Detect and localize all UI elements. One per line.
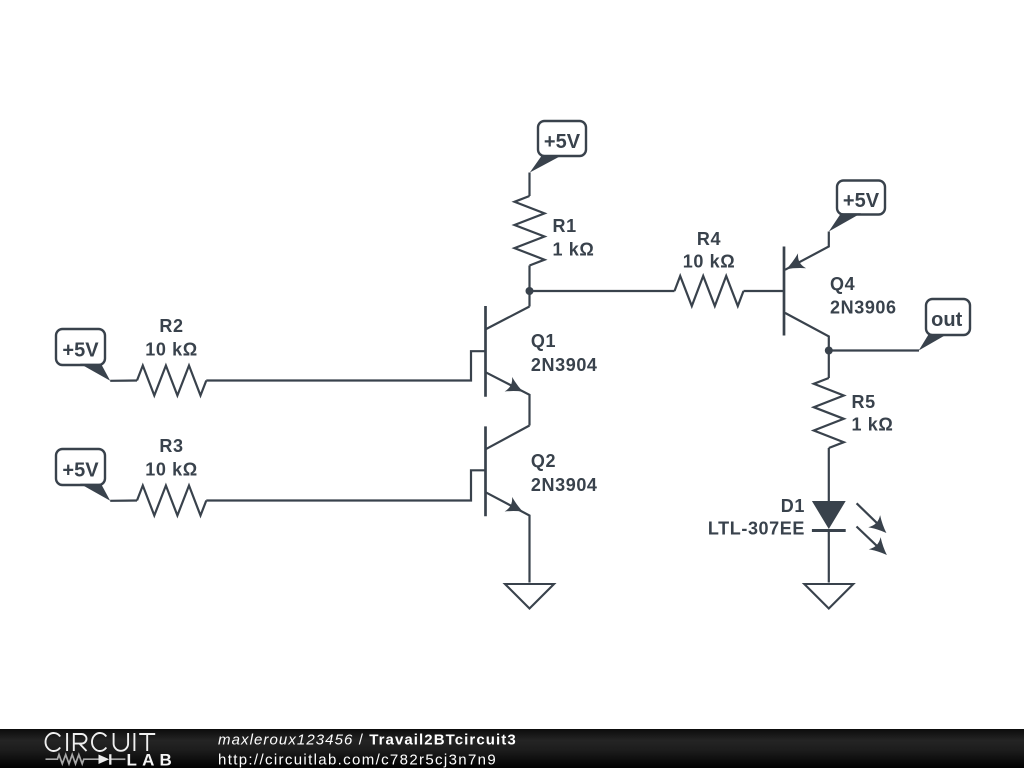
svg-text:10 kΩ: 10 kΩ [145, 340, 197, 360]
svg-text:R4: R4 [697, 229, 721, 249]
svg-text:Q4: Q4 [830, 274, 855, 294]
svg-text:out: out [931, 309, 962, 331]
svg-text:R1: R1 [553, 216, 577, 236]
svg-text:Q2: Q2 [531, 451, 556, 471]
svg-text:Q1: Q1 [531, 331, 556, 351]
svg-text:R2: R2 [159, 316, 183, 336]
svg-text:2N3904: 2N3904 [531, 355, 598, 375]
svg-text:R3: R3 [159, 436, 183, 456]
svg-text:D1: D1 [781, 496, 805, 516]
svg-text:+5V: +5V [843, 190, 880, 212]
svg-text:+5V: +5V [544, 131, 581, 153]
svg-text:http://circuitlab.com/c782r5cj: http://circuitlab.com/c782r5cj3n7n9 [218, 751, 497, 768]
svg-text:+5V: +5V [62, 460, 99, 482]
svg-text:maxleroux123456 / Travail2BTci: maxleroux123456 / Travail2BTcircuit3 [218, 732, 517, 749]
svg-text:2N3906: 2N3906 [830, 298, 897, 318]
svg-text:LAB: LAB [127, 750, 178, 768]
svg-text:2N3904: 2N3904 [531, 475, 598, 495]
svg-text:10 kΩ: 10 kΩ [145, 460, 197, 480]
svg-text:LTL-307EE: LTL-307EE [708, 519, 805, 539]
svg-text:1 kΩ: 1 kΩ [852, 415, 894, 435]
svg-text:1 kΩ: 1 kΩ [553, 240, 595, 260]
svg-text:10 kΩ: 10 kΩ [683, 252, 735, 272]
svg-text:R5: R5 [852, 392, 876, 412]
svg-text:+5V: +5V [62, 340, 99, 362]
